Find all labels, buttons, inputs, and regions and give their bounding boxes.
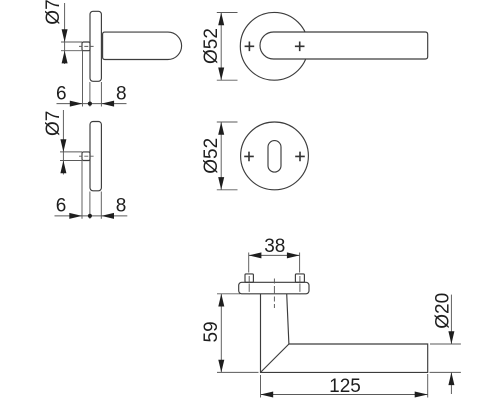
dimension Ø52 (fig 3): [217, 13, 238, 81]
lever handle bar (fig 3): [260, 32, 428, 59]
arrowheads Ø20 (fig 5): [448, 331, 454, 385]
svg-text:Ø52: Ø52: [201, 138, 222, 174]
arrowheads 125 (fig 5): [261, 392, 428, 398]
dimension 6 / 8 (fig 2): [55, 161, 128, 219]
label Ø52 (fig 3): [201, 28, 222, 64]
centerline through spindle (fig 1): [79, 45, 94, 47]
keyhole slot (fig 4): [268, 141, 281, 173]
svg-text:125: 125: [329, 376, 361, 397]
label 8 (fig 2): [116, 196, 127, 217]
rosette plate (side view, fig 1): [90, 11, 101, 81]
spindle stem (fig 2): [82, 152, 90, 161]
dimension Ø7 (fig 1): [61, 3, 82, 64]
screw mark right (fig 3): [295, 42, 305, 52]
svg-text:Ø20: Ø20: [433, 293, 454, 329]
label 59 (fig 5): [201, 321, 222, 342]
arrowheads Ø7 (fig 2): [60, 139, 66, 173]
dimension 38 (fig 5): [249, 253, 300, 273]
miter seam line (fig 5): [261, 344, 289, 372]
centerline through spindle (fig 2): [79, 155, 94, 157]
svg-text:8: 8: [116, 84, 127, 105]
svg-text:Ø7: Ø7: [43, 111, 64, 136]
round rose circle (fig 3): [240, 12, 308, 80]
arrowheads 59 (fig 5): [218, 294, 224, 373]
label Ø20 (fig 5): [433, 293, 454, 329]
label Ø7 (fig 2): [43, 111, 64, 136]
svg-text:8: 8: [116, 196, 127, 217]
svg-text:6: 6: [56, 84, 67, 105]
lever grip cylinder (side view, fig 1): [103, 32, 182, 59]
handle neck and grip outline (fig 5): [261, 294, 428, 373]
screw mark left (fig 3): [245, 42, 255, 52]
screw post centerline left (fig 5): [248, 276, 250, 295]
svg-text:Ø52: Ø52: [201, 28, 222, 64]
arrowheads and dot 6/8 (fig 2): [69, 213, 114, 219]
svg-text:59: 59: [201, 321, 222, 342]
svg-text:38: 38: [264, 236, 285, 257]
arrowheads 38 (fig 5): [249, 252, 300, 258]
arrowheads Ø52 (fig 4): [218, 122, 224, 190]
svg-text:Ø7: Ø7: [43, 0, 64, 25]
dimension Ø20 (fig 5): [430, 295, 461, 394]
label 8 (fig 1): [116, 84, 127, 105]
screw post right (fig 5): [295, 274, 304, 282]
dimension Ø52 (fig 4): [217, 122, 238, 190]
screw post centerline right (fig 5): [299, 276, 301, 295]
label Ø7 (fig 1): [43, 0, 64, 25]
rose plate edge-on (fig 5): [239, 282, 309, 294]
main centerline (fig 5): [273, 279, 275, 309]
arrowheads Ø52 (fig 3): [218, 13, 224, 81]
svg-text:6: 6: [56, 196, 67, 217]
dimension 6 / 8 (fig 1): [57, 51, 127, 107]
spindle stem (fig 1): [82, 42, 90, 51]
label Ø52 (fig 4): [201, 138, 222, 174]
dimension 125 (fig 5): [261, 374, 428, 398]
key rose circle (fig 4): [241, 122, 309, 190]
arrowheads Ø7 (fig 1): [62, 29, 68, 63]
screw mark left (fig 4): [244, 152, 254, 162]
label 38 (fig 5): [264, 236, 285, 257]
arrowheads and dot 6/8 (fig 1): [70, 101, 114, 107]
screw mark right (fig 4): [295, 152, 305, 162]
dimension 59 (fig 5): [217, 294, 259, 373]
rosette plate (side view, fig 2): [90, 122, 101, 191]
screw post left (fig 5): [245, 274, 253, 282]
label 6 (fig 1): [56, 84, 67, 105]
label 6 (fig 2): [56, 196, 67, 217]
dimension Ø7 (fig 2): [60, 110, 82, 175]
label 125 (fig 5): [329, 376, 361, 397]
